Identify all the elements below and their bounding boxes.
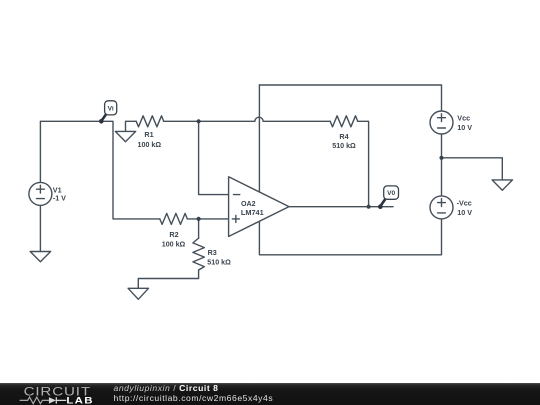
voltage source -Vcc circle (430, 196, 453, 219)
wire op-amp positive supply vertical (258, 85, 260, 192)
wire R3 top lead (198, 219, 200, 238)
junction node at output feedback tap (367, 205, 371, 209)
wire R2 right lead to non-inverting input (187, 218, 228, 220)
wire Vcc bottom to -Vcc top (441, 134, 443, 196)
Vcc plus sign (438, 114, 446, 122)
svg-text:V0: V0 (387, 190, 395, 197)
V1 minus sign (37, 198, 45, 200)
resistor R2 zigzag (160, 213, 188, 224)
svg-text:Vi: Vi (108, 106, 114, 113)
svg-text:Vcc: Vcc (457, 113, 470, 122)
svg-text:R1: R1 (144, 130, 153, 139)
-Vcc minus sign (438, 212, 446, 214)
footer black bar (0, 383, 540, 405)
voltage source Vcc circle (430, 111, 453, 134)
svg-text:OA2: OA2 (241, 199, 256, 208)
svg-text:10 V: 10 V (457, 123, 472, 132)
junction node at R2 R3 non-inverting input (197, 217, 201, 221)
junction node between Vcc and -Vcc (439, 156, 443, 160)
V1 plus sign (37, 185, 45, 193)
ground for supply midpoint (492, 180, 512, 190)
node Vi flag (99, 101, 117, 124)
svg-text:R2: R2 (169, 230, 178, 239)
Vcc minus sign (438, 127, 446, 129)
svg-text:100 kΩ: 100 kΩ (162, 239, 186, 248)
svg-text:LM741: LM741 (241, 208, 264, 217)
wire R1 right lead feedback with hop over power wire (164, 117, 331, 121)
wire R4 right lead down to output node (358, 121, 369, 206)
svg-text:LAB: LAB (66, 397, 93, 405)
op-amp OA2 triangle (229, 177, 289, 237)
wire V1 bottom to ground (39, 205, 41, 251)
ground for V1 (30, 252, 50, 262)
ground for R3 (128, 288, 148, 299)
junction node at inverting feedback tap (197, 119, 201, 123)
wire R3 bottom lead to ground (138, 270, 198, 288)
wire inverting input branch (199, 121, 229, 194)
svg-text:-Vcc: -Vcc (457, 198, 472, 207)
wire supply midpoint to ground (442, 158, 503, 180)
-Vcc plus sign (438, 199, 446, 207)
resistor R1 zigzag (136, 116, 164, 127)
svg-text:10 V: 10 V (457, 208, 472, 217)
svg-text:R3: R3 (208, 248, 217, 257)
op-amp inverting input symbol (234, 194, 240, 196)
svg-text:R4: R4 (339, 132, 348, 141)
svg-text:-1 V: -1 V (53, 193, 66, 202)
footer text (114, 384, 274, 403)
CircuitLab logo (0, 383, 110, 405)
wire V1 top to Vi corner down to R2 left (40, 121, 159, 219)
svg-text:510 kΩ: 510 kΩ (332, 141, 356, 150)
wire top rail to Vcc (259, 85, 441, 111)
ground for R1 (115, 131, 135, 141)
wire -Vcc bottom rail to op-amp negative supply (259, 219, 441, 255)
voltage source V1 circle (29, 182, 52, 205)
svg-text:510 kΩ: 510 kΩ (207, 257, 231, 266)
resistor R4 zigzag (330, 116, 358, 127)
svg-text:100 kΩ: 100 kΩ (138, 140, 162, 149)
wire op-amp output (289, 206, 393, 208)
resistor R3 zigzag (193, 238, 204, 270)
op-amp non-inverting input symbol (232, 215, 239, 222)
wire R1 left lead to ground stub (126, 121, 137, 131)
node V0 flag (378, 186, 399, 209)
